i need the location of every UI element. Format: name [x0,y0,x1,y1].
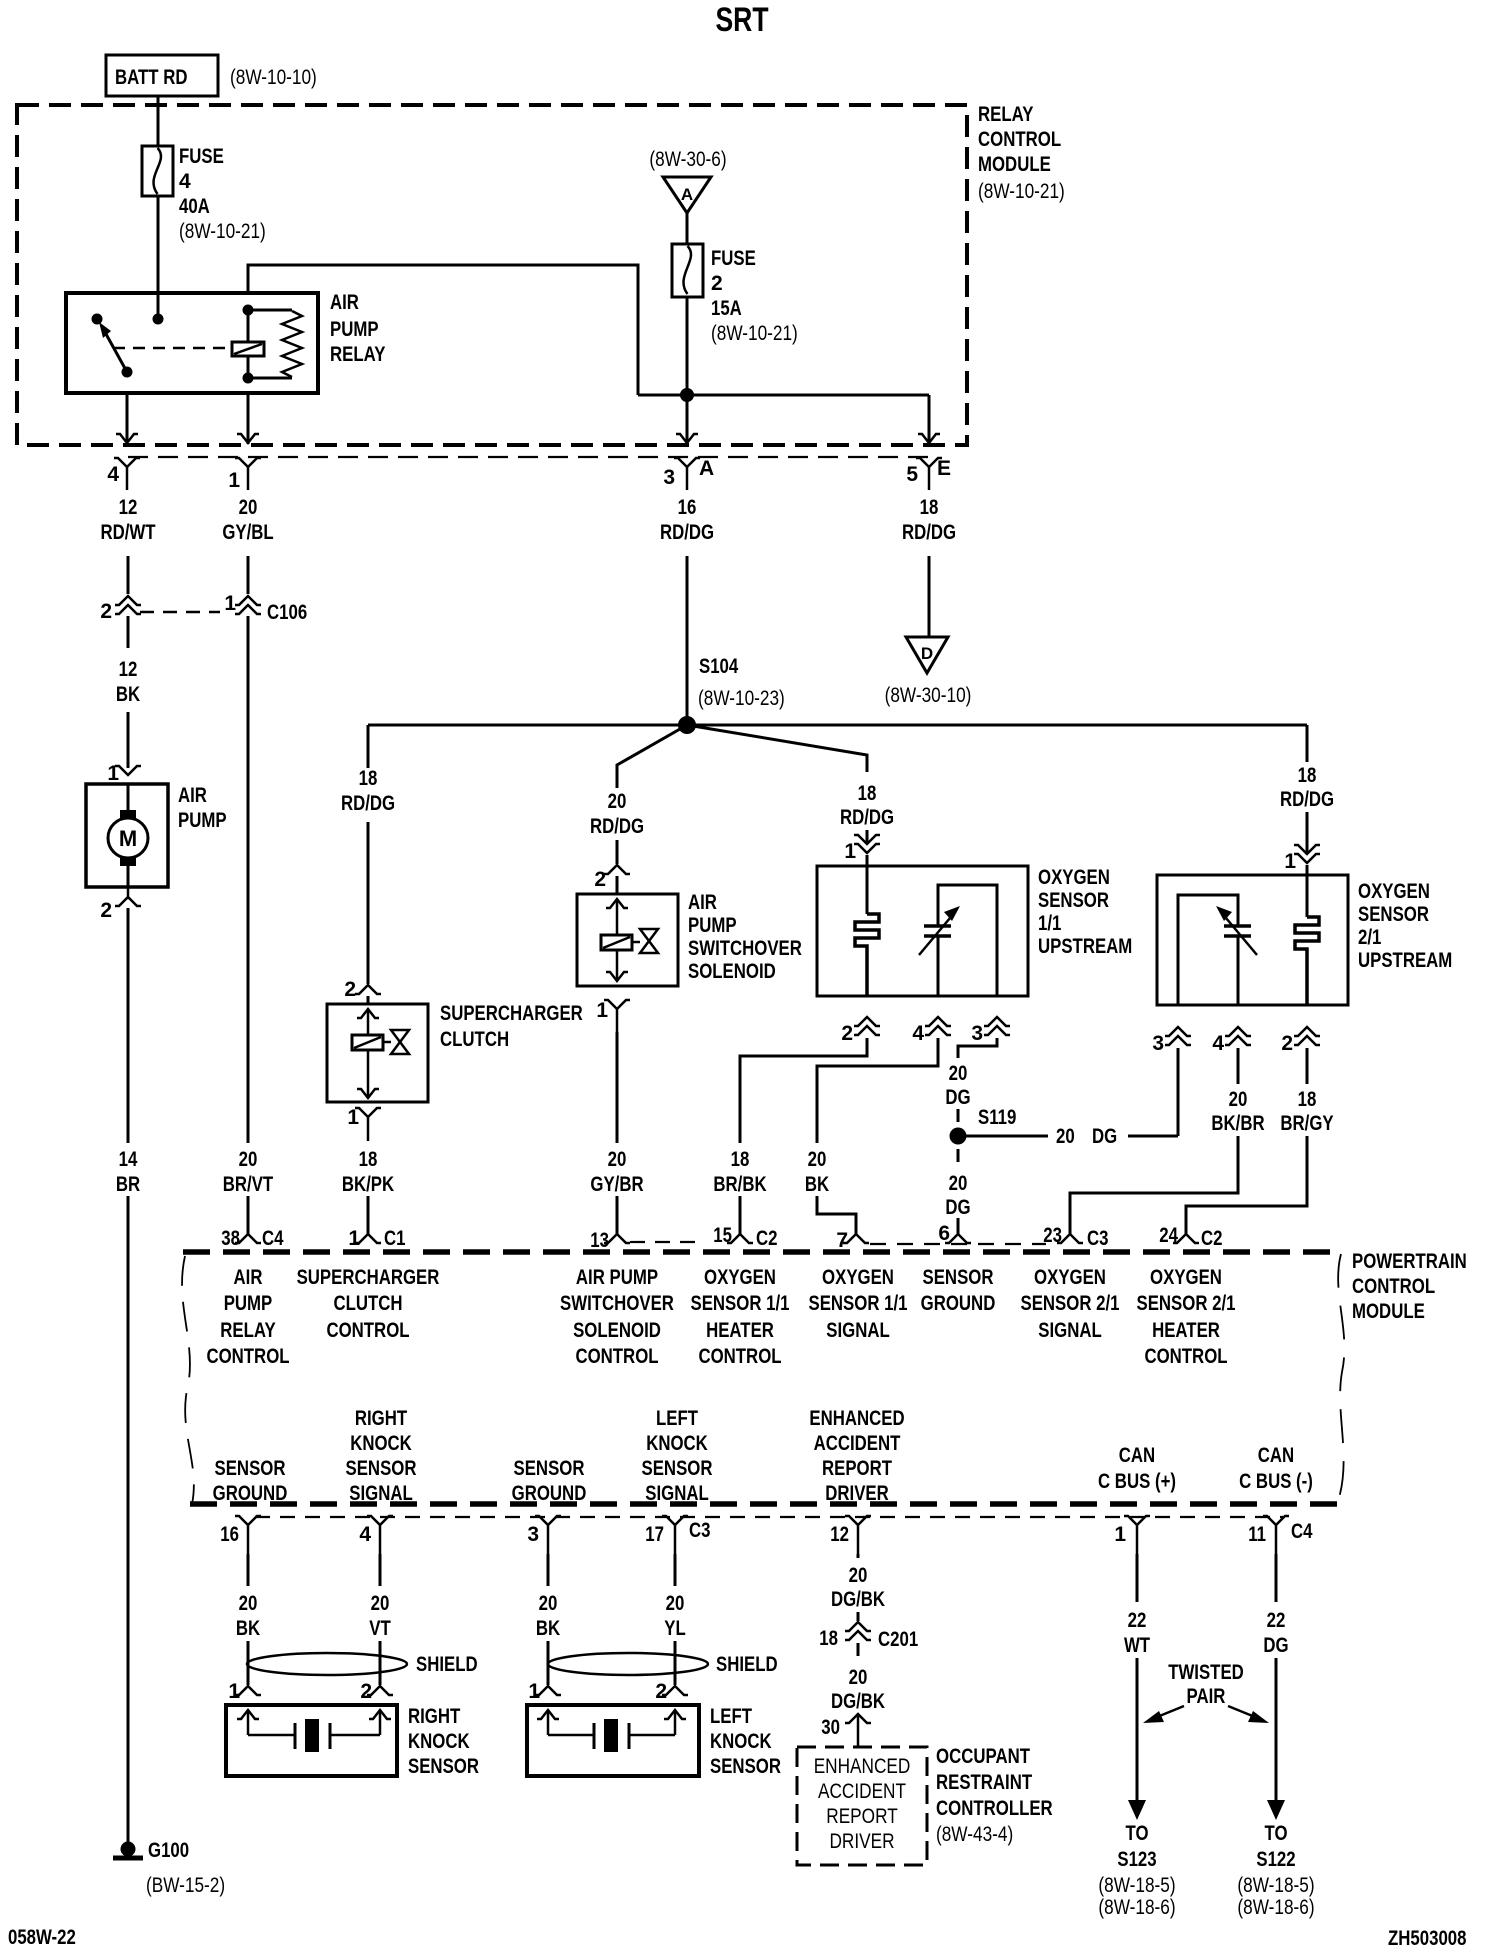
label CAN C BUS plus [1098,1444,1176,1493]
S119 branch wire right [966,1135,1048,1138]
wire CAN minus upper [1275,1554,1278,1602]
svg-text:14: 14 [119,1148,138,1171]
connector O2 2/1 pin 1 [1284,845,1320,873]
svg-text:1: 1 [107,762,119,785]
svg-text:S122: S122 [1256,1848,1295,1871]
label AIR PUMP RELAY [330,291,385,366]
connector pin 5 E [906,457,951,490]
svg-text:SENSOR: SENSOR [642,1457,713,1480]
svg-text:S104: S104 [699,655,738,678]
label OXYGEN SENSOR 1/1 HEATER CONTROL [691,1266,790,1368]
svg-text:OXYGEN: OXYGEN [1150,1266,1222,1289]
wire to PCM pin 1 C1 [367,1196,370,1234]
svg-text:LEFT: LEFT [710,1705,752,1728]
svg-text:18: 18 [819,1627,838,1650]
svg-text:CONTROL: CONTROL [206,1345,289,1368]
svg-text:D: D [921,644,933,663]
svg-text:5: 5 [906,463,918,486]
label AIR PUMP [178,784,227,832]
svg-text:KNOCK: KNOCK [710,1730,772,1753]
connector PCM pin 16 [220,1516,261,1554]
svg-text:RELAY: RELAY [978,103,1033,126]
svg-text:SUPERCHARGER: SUPERCHARGER [297,1266,440,1289]
svg-text:SIGNAL: SIGNAL [826,1319,890,1342]
svg-text:1: 1 [528,1680,540,1703]
label 18 RD/DG [902,496,956,544]
oxygen sensor 1/1 box [817,866,1028,996]
wire S104 diagonal to O2 1/1 branch [687,725,867,772]
svg-text:38: 38 [221,1227,240,1250]
label TO S122 [1237,1822,1314,1919]
svg-text:4: 4 [912,1022,924,1045]
label POWERTRAIN CONTROL MODULE [1352,1250,1467,1323]
svg-text:SENSOR 2/1: SENSOR 2/1 [1137,1292,1236,1315]
svg-text:18: 18 [920,496,939,519]
svg-text:(8W-18-6): (8W-18-6) [1237,1896,1314,1919]
exit arrow pin 1 [237,434,259,443]
wire into right knock pin 2 [379,1641,382,1685]
svg-text:SENSOR: SENSOR [1038,889,1109,912]
svg-text:1: 1 [348,1227,360,1250]
svg-text:OXYGEN: OXYGEN [704,1266,776,1289]
wire C106 pin1 to PCM pin 38 [247,616,250,1143]
relay coil bottom dot [243,373,254,384]
svg-text:TWISTED: TWISTED [1168,1661,1244,1684]
wire into supercharger box [367,996,370,1004]
svg-text:FUSE: FUSE [711,247,756,270]
PCM top boundary [183,1249,1341,1255]
right knock sensor box [226,1705,397,1776]
exit arrow pin 5 [918,434,940,443]
svg-text:VT: VT [369,1617,391,1640]
switchover solenoid symbol [601,899,658,981]
svg-text:18: 18 [359,767,378,790]
label FUSE 2 15A (8W-10-21) [711,247,798,345]
connector air pump pin 2 [100,887,141,922]
svg-text:RIGHT: RIGHT [355,1407,407,1430]
connector PCM pin 11 C4 [1248,1516,1313,1554]
svg-text:ACCIDENT: ACCIDENT [814,1432,901,1455]
S119 branch wire to O2 2/1 pin 3 [1128,1135,1178,1138]
label CAN C BUS minus [1239,1444,1313,1493]
connector O2 1/1 pin 4 [912,1017,951,1045]
label 20 BK left knock [536,1592,560,1640]
svg-text:A: A [699,457,714,480]
svg-text:RD/DG: RD/DG [341,792,395,815]
ground G100 [113,1839,225,1897]
svg-text:PAIR: PAIR [1187,1685,1226,1708]
label SUPERCHARGER CLUTCH CONTROL [297,1266,440,1342]
connector left knock pin 2 [655,1680,688,1703]
label 18 RD/DG supercharger [341,767,395,815]
svg-text:40A: 40A [179,195,210,218]
svg-text:2: 2 [655,1680,667,1703]
svg-text:OXYGEN: OXYGEN [1034,1266,1106,1289]
switchover branch wire lower [616,840,619,864]
svg-text:2: 2 [594,868,606,891]
svg-text:OXYGEN: OXYGEN [822,1266,894,1289]
svg-text:M: M [119,826,137,851]
svg-text:BK: BK [116,683,140,706]
wire into right knock pin 1 [247,1641,250,1685]
svg-text:BK/BR: BK/BR [1211,1112,1264,1135]
svg-text:(8W-10-21): (8W-10-21) [711,322,798,345]
svg-text:12: 12 [119,658,138,681]
svg-text:18: 18 [1298,764,1317,787]
connector PCM pin 13 [590,1229,630,1252]
wire relay coil to fuse 2 feed [248,265,638,395]
twisted pair arrow right [1228,1706,1269,1723]
wire triangle A to fuse 2 [686,213,689,244]
wire S104 diagonal to switchover branch [617,725,687,788]
svg-text:ZH503008: ZH503008 [1388,1927,1467,1950]
svg-text:(8W-30-6): (8W-30-6) [649,148,726,171]
svg-text:20: 20 [1229,1088,1248,1111]
svg-text:C4: C4 [262,1227,284,1250]
wire pin 4 to right knock [379,1554,382,1586]
svg-text:(8W-18-6): (8W-18-6) [1098,1896,1175,1919]
svg-text:SOLENOID: SOLENOID [688,960,776,983]
svg-text:RD/DG: RD/DG [590,815,644,838]
label OXYGEN SENSOR 2/1 SIGNAL [1021,1266,1120,1342]
label SENSOR GROUND row2 left [213,1457,288,1505]
label TWISTED PAIR [1168,1661,1244,1708]
svg-text:C106: C106 [267,601,307,624]
enhanced accident report driver box [797,1747,927,1865]
svg-text:TO: TO [1126,1822,1149,1845]
label 20 DG lower [945,1172,970,1219]
label ENHANCED ACCIDENT REPORT DRIVER pcm [809,1407,904,1505]
svg-text:20: 20 [239,496,258,519]
svg-text:A: A [681,185,693,204]
svg-text:3: 3 [1152,1032,1164,1055]
svg-text:17: 17 [645,1523,664,1546]
svg-text:4: 4 [1212,1032,1224,1055]
svg-text:2/1: 2/1 [1358,926,1382,949]
connector right knock pin 2 [360,1680,393,1703]
svg-text:E: E [937,457,951,480]
svg-text:ACCIDENT: ACCIDENT [818,1780,906,1803]
wire to module exit pin 3 [686,395,689,444]
label OXYGEN SENSOR 2/1 UPSTREAM [1358,880,1452,972]
relay pin dot (switch output) [122,367,133,378]
svg-text:20: 20 [808,1148,827,1171]
O2 1/1 feed wire [866,830,869,843]
O2 2/1 feed wire upper [1306,725,1309,762]
svg-text:GROUND: GROUND [921,1292,996,1315]
wire O2 2/1 pin4 to PCM pin 23 [1070,1136,1238,1234]
svg-text:C3: C3 [1087,1227,1109,1250]
dashed splice lead lower [957,1149,960,1162]
svg-text:WT: WT [1124,1634,1150,1657]
wire stub to PCM pin 6 [957,1218,960,1234]
connector O2 2/1 pin 3 [1152,1027,1191,1055]
label 20 GY/BL [222,496,273,544]
label 20 GY/BR [590,1148,643,1196]
svg-text:(8W-10-21): (8W-10-21) [179,220,266,243]
wire O2 1/1 pin4 to PCM pin 7 [817,1038,938,1143]
relay resistor [248,310,302,378]
svg-text:CAN: CAN [1119,1444,1155,1467]
svg-text:AIR: AIR [688,891,717,914]
connector PCM pin 1 CAN [1114,1516,1150,1554]
wire pin 12 upper [857,1554,860,1558]
svg-text:CONTROL: CONTROL [326,1319,409,1342]
svg-text:KNOCK: KNOCK [408,1730,470,1753]
svg-text:20: 20 [849,1564,868,1587]
air pump box [86,784,168,887]
svg-text:C2: C2 [756,1227,778,1250]
O2 2/1 feed wire lower [1306,812,1309,852]
svg-text:DG: DG [1092,1125,1117,1148]
label 20 BK/BR [1211,1088,1264,1135]
svg-text:DG: DG [1263,1634,1288,1657]
left knock sensor element [537,1710,686,1752]
svg-text:CONTROL: CONTROL [1144,1345,1227,1368]
connector triangle D [906,637,948,673]
svg-text:CONTROL: CONTROL [698,1345,781,1368]
label 14 BR [116,1148,140,1196]
label 20 YL [664,1592,686,1640]
label 12 BK [116,658,140,706]
svg-text:ENHANCED: ENHANCED [809,1407,904,1430]
svg-text:MODULE: MODULE [1352,1300,1425,1323]
wire pin 16 to right knock shield [247,1554,250,1586]
svg-text:TO: TO [1265,1822,1288,1845]
oxygen sensor 2/1 box [1157,875,1348,1005]
connector supercharger pin 1 [347,1106,381,1141]
wire to PCM pin 13 [616,1196,619,1234]
left knock shield ellipse [548,1653,708,1675]
svg-text:RELAY: RELAY [220,1319,275,1342]
PCM connector dashes row1 [630,1242,1046,1244]
svg-text:DG: DG [945,1196,970,1219]
svg-text:GY/BR: GY/BR [590,1173,643,1196]
svg-text:SWITCHOVER: SWITCHOVER [688,937,802,960]
wire C201 to ERD [857,1643,860,1656]
label 20 DG/BK upper [831,1564,885,1611]
relay control module boundary [17,105,967,445]
svg-text:SENSOR: SENSOR [514,1457,585,1480]
svg-text:C1: C1 [384,1227,406,1250]
svg-text:KNOCK: KNOCK [646,1432,708,1455]
svg-text:S119: S119 [978,1106,1016,1129]
svg-text:4: 4 [107,463,119,486]
svg-text:16: 16 [220,1523,239,1546]
label 18 BK/PK [342,1148,394,1196]
svg-text:20: 20 [239,1592,258,1615]
svg-text:DG: DG [945,1086,970,1109]
svg-text:LEFT: LEFT [656,1407,698,1430]
svg-text:AIR: AIR [234,1266,263,1289]
svg-text:KNOCK: KNOCK [350,1432,412,1455]
label 22 DG [1263,1609,1288,1657]
connector PCM pin 24 C2 [1159,1224,1222,1250]
label 18 BR/BK [713,1148,766,1196]
label 20 DG upper [945,1062,970,1109]
svg-text:1: 1 [228,1680,240,1703]
svg-text:BR: BR [116,1173,140,1196]
wire into O2 1/1 box [866,855,869,866]
svg-text:PUMP: PUMP [178,809,227,832]
svg-text:12: 12 [119,496,138,519]
wire pin 3 to left knock shield [547,1554,550,1586]
svg-text:MODULE: MODULE [978,153,1051,176]
wire CAN plus lower [1136,1658,1139,1804]
fuse F2 [672,244,703,297]
harness connector dashed line [128,456,929,458]
label 20 BK right knock [236,1592,260,1640]
svg-text:20: 20 [666,1592,685,1615]
label 22 WT [1124,1609,1150,1657]
svg-text:7: 7 [836,1229,848,1252]
svg-text:SENSOR: SENSOR [408,1755,479,1778]
connector PCM pin 7 [836,1229,869,1252]
connector supercharger pin 2 [344,978,381,1001]
wire into left knock pin 2 [674,1641,677,1685]
svg-text:REPORT: REPORT [822,1457,892,1480]
svg-text:SENSOR: SENSOR [923,1266,994,1289]
svg-text:REPORT: REPORT [826,1805,898,1828]
svg-text:RD/WT: RD/WT [100,521,155,544]
svg-text:20: 20 [949,1172,968,1195]
svg-text:PUMP: PUMP [330,318,379,341]
splice S104 [678,716,696,734]
label SUPERCHARGER CLUTCH [440,1002,583,1051]
svg-text:HEATER: HEATER [1152,1319,1220,1342]
supercharger clutch box [327,1004,428,1102]
svg-text:SENSOR 1/1: SENSOR 1/1 [691,1292,790,1315]
connector PCM pin 4 [359,1516,393,1554]
O2 1/1 sensing cell [919,885,997,996]
O2 2/1 heater element [1295,875,1319,1005]
relay actuator dashed link [113,347,230,350]
wire air pump to G100 upper [127,908,130,1143]
svg-text:RELAY: RELAY [330,343,385,366]
label 18 RD/DG O2 2/1 [1280,764,1334,811]
label 20 DG splice branch [1056,1125,1117,1148]
label ENHANCED ACCIDENT REPORT DRIVER box [814,1755,911,1853]
exit arrow pin 4 [116,434,138,443]
svg-text:PUMP: PUMP [224,1292,273,1315]
label TO S123 [1098,1822,1175,1919]
svg-text:(8W-43-4): (8W-43-4) [936,1823,1013,1846]
svg-text:20: 20 [849,1666,868,1689]
wire to PCM pin 15 [739,1196,742,1234]
svg-text:RD/DG: RD/DG [1280,788,1334,811]
svg-text:1: 1 [596,999,608,1022]
svg-text:1: 1 [228,469,240,492]
label OXYGEN SENSOR 2/1 HEATER CONTROL [1137,1266,1236,1368]
connector PCM pin 1 C1 [348,1227,405,1250]
connector PCM pin 17 C3 [645,1516,710,1554]
label LEFT KNOCK SENSOR [710,1705,781,1778]
svg-text:C BUS (+): C BUS (+) [1098,1470,1176,1493]
svg-text:12: 12 [830,1523,849,1546]
connector left knock pin 1 [528,1680,561,1703]
svg-text:058W-22: 058W-22 [8,1926,76,1949]
PCM bottom boundary [190,1501,1342,1507]
connector pin 4 [107,458,140,490]
svg-text:2: 2 [344,978,356,1001]
svg-text:SHIELD: SHIELD [416,1653,478,1676]
label 18 RD/DG O2 1/1 [840,782,894,829]
svg-text:G100: G100 [148,1839,189,1862]
label FUSE 4 40A (8W-10-21) [179,145,266,243]
svg-text:2: 2 [1281,1032,1293,1055]
connector switchover pin 1 [596,999,630,1032]
label OXYGEN SENSOR 1/1 SIGNAL [809,1266,908,1342]
wire to PCM pin 38 [247,1196,250,1234]
svg-text:18: 18 [858,782,877,805]
svg-text:OCCUPANT: OCCUPANT [936,1745,1030,1768]
svg-text:1: 1 [1114,1523,1126,1546]
label SENSOR GROUND row1 [921,1266,996,1315]
wire relay coil to module exit pin 1 [247,393,250,444]
svg-text:CLUTCH: CLUTCH [440,1028,509,1051]
air pump switchover solenoid box [577,894,678,986]
svg-text:20: 20 [1056,1125,1075,1148]
wire into switchover box [616,876,619,894]
wire into left knock pin 1 [547,1641,550,1685]
svg-text:CONTROL: CONTROL [575,1345,658,1368]
svg-text:CONTROLLER: CONTROLLER [936,1797,1053,1820]
wire O2 1/1 pin3 to S119 [958,1038,997,1058]
connector PCM pin 38 C4 [221,1227,283,1250]
wire pin5 E to triangle D [928,556,931,637]
svg-text:RD/DG: RD/DG [902,521,956,544]
connector pin 3 A [663,457,714,490]
PCM left torn edge [182,1256,194,1504]
dashed splice lead upper [957,1109,960,1122]
svg-text:3: 3 [663,466,675,489]
svg-text:13: 13 [590,1229,609,1252]
wire to air pump pin 1 [127,712,130,768]
svg-text:(8W-18-5): (8W-18-5) [1098,1874,1175,1897]
relay coil symbol [232,310,264,378]
svg-text:18: 18 [731,1148,750,1171]
svg-text:SIGNAL: SIGNAL [1038,1319,1102,1342]
svg-text:20: 20 [539,1592,558,1615]
svg-text:DG/BK: DG/BK [831,1690,885,1713]
svg-text:2: 2 [711,272,723,295]
connector PCM pin 3 [527,1516,561,1554]
svg-text:RD/DG: RD/DG [660,521,714,544]
wire pin1 to C106 [247,556,250,594]
wire switchover to PCM pin 13 [616,1032,619,1143]
wire relay switch to module exit pin 4 [126,393,129,444]
svg-text:CONTROL: CONTROL [1352,1275,1435,1298]
wire CAN plus upper [1136,1554,1139,1602]
wire O2 2/1 pin4 upper [1237,1048,1240,1084]
connector PCM pin 15 C2 [713,1224,777,1250]
svg-text:18: 18 [359,1148,378,1171]
svg-text:GY/BL: GY/BL [222,521,273,544]
label 12 RD/WT [100,496,155,544]
connector C201 pin 18 [819,1622,918,1651]
supercharger branch wire lower [367,822,370,984]
CAN minus arrowhead [1267,1800,1285,1820]
svg-text:UPSTREAM: UPSTREAM [1038,935,1132,958]
wire S104 right bus [687,724,1307,727]
label RIGHT KNOCK SENSOR SIGNAL [346,1407,417,1505]
svg-text:SENSOR: SENSOR [710,1755,781,1778]
junction dot [680,388,694,402]
wire S104 left bus [368,724,687,727]
connector pin 1 [228,458,261,492]
wire pin3 A to S104 [686,556,689,725]
PCM connector dashed line row2 [255,1516,1283,1518]
